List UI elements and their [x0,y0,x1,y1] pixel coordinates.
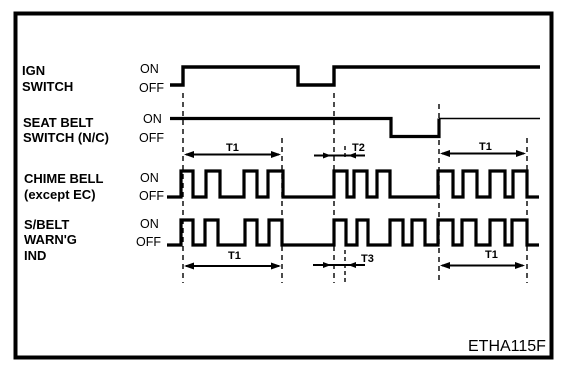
svg-text:SWITCH (N/C): SWITCH (N/C) [23,130,109,145]
svg-text:OFF: OFF [139,189,164,203]
svg-text:T1: T1 [479,141,492,153]
dashed line x=527 [526,138,528,283]
T1 arrow (bottom right) [440,262,525,269]
label SEAT BELT SWITCH (N/C) [23,115,109,145]
label CHIME BELL (except EC) [24,171,104,202]
label IGN SWITCH [22,63,73,94]
IGN SWITCH waveform [170,67,540,85]
T3 arrow [313,262,365,268]
svg-text:T1: T1 [226,142,239,154]
svg-text:T1: T1 [485,249,498,261]
label S/BELT WARN'G IND [24,217,77,263]
svg-text:WARN'G: WARN'G [24,232,77,247]
SEAT BELT SWITCH waveform (thick part) [170,119,439,137]
svg-text:IGN: IGN [22,63,45,78]
svg-text:SWITCH: SWITCH [22,79,73,94]
T1 arrow (top right) [440,150,526,157]
svg-text:T3: T3 [361,253,374,265]
svg-text:ON: ON [140,217,159,231]
svg-text:T1: T1 [228,250,241,262]
svg-text:T2: T2 [352,142,365,154]
T2 arrow [314,153,365,159]
svg-text:ON: ON [140,171,159,185]
T1 arrow (top left) [184,151,281,158]
SEAT BELT SWITCH waveform (thin continuation) [439,118,540,120]
svg-text:ETHA115F: ETHA115F [468,338,546,355]
svg-text:S/BELT: S/BELT [24,217,69,232]
T1 arrow (bottom left) [184,263,281,270]
dashed line x=334 [333,93,335,283]
svg-text:ON: ON [140,62,159,76]
svg-text:CHIME BELL: CHIME BELL [24,171,104,186]
S/BELT WARN'G IND waveform [167,220,539,245]
svg-text:SEAT BELT: SEAT BELT [23,115,93,130]
svg-text:(except EC): (except EC) [24,187,96,202]
CHIME BELL waveform [167,171,539,197]
svg-text:IND: IND [24,248,46,263]
dashed line x=345 (short, T2/T3) [344,146,346,160]
svg-text:OFF: OFF [139,131,164,145]
dashed line x=439 [438,104,440,283]
svg-text:ON: ON [143,112,162,126]
svg-text:OFF: OFF [139,81,164,95]
dashed line x=282 [281,138,283,283]
dashed line x=183 [182,93,184,283]
svg-text:OFF: OFF [136,235,161,249]
